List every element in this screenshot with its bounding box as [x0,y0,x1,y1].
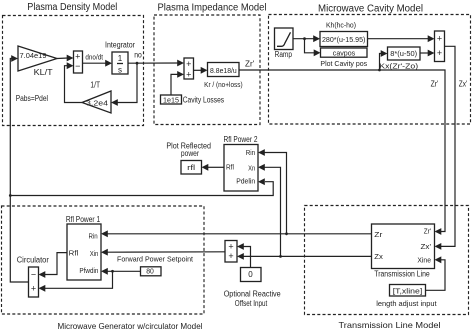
fcn block 280*(u-15.95) [320,32,368,47]
svg-text:Transmission Line Model: Transmission Line Model [339,320,441,329]
svg-text:Rfl: Rfl [69,249,79,258]
integrator block [112,52,128,74]
arrowhead into sum4 bottom [237,253,244,260]
gain KL/T triangle [18,46,57,71]
svg-text:8*(u-50): 8*(u-50) [390,49,417,58]
subsystem box Transmission Line Model [305,206,469,315]
constant block [T,xline] [390,285,426,297]
svg-text:rfl: rfl [187,163,195,172]
svg-text:Zx: Zx [374,252,383,261]
svg-text:Pdelin: Pdelin [236,177,255,186]
svg-text:Rfl Power 1: Rfl Power 1 [66,214,101,224]
svg-text:Transmission Line: Transmission Line [374,270,430,279]
subsystem block Transmission Line [372,224,435,269]
svg-text:8.8e18/u: 8.8e18/u [210,66,237,75]
svg-text:Xn: Xn [248,163,255,172]
svg-text:1e15: 1e15 [163,96,179,105]
wire sum2 to 8.8e18/u [194,69,203,71]
subsystem block Rfl Power 2 [224,145,258,192]
svg-text:Xine: Xine [417,255,431,264]
svg-text:Ramp: Ramp [275,50,293,59]
svg-text:80: 80 [146,267,154,276]
wire branch 80 down to circulator plus [45,271,113,288]
junction dot on 80 line [111,270,114,273]
wire 80 to Pfwdin [108,270,141,272]
wire branch ramp to cavpos [305,39,315,53]
junction dot on Zx line [279,255,282,258]
constant block 1e15 [161,95,182,104]
svg-text:+: + [186,70,191,80]
wire 8*(u-50) to sum3 [420,52,429,54]
svg-text:Optional Reactive: Optional Reactive [224,290,281,299]
wire Zx from Transmission Line to sum4 [244,255,372,257]
svg-text:1/T: 1/T [90,81,100,90]
svg-text:Kh(hc-ho): Kh(hc-ho) [326,21,356,30]
svg-text:Rfl Power 2: Rfl Power 2 [224,134,258,144]
svg-text:3.2e4: 3.2e4 [86,99,108,108]
wire sum1 to integrator (dno/dt) [83,62,107,64]
svg-text:Microwave Generator w/circulat: Microwave Generator w/circulator Model [58,321,203,329]
svg-text:Circulator: Circulator [17,255,49,264]
svg-text:Xin: Xin [90,249,99,258]
subsystem block Rfl Power 1 [67,224,101,280]
arrowhead into Rfl Power 1 Pfwdin [101,268,108,275]
arrowhead into TL Zx' [435,243,442,250]
wire Pdel branch to Pdelin [10,182,273,196]
arrowhead into 280 block [313,35,320,42]
arrowhead into Rfl Power 1 Xin [101,249,108,256]
wire no: integrator output to sum2 [128,62,179,64]
arrowhead into rfl scope [202,164,209,171]
junction dot on ramp output [303,37,306,40]
svg-text:[T,xline]: [T,xline] [393,287,423,296]
svg-text:Zx': Zx' [421,242,432,251]
svg-text:Kr / (no+loss): Kr / (no+loss) [204,80,243,89]
arrowhead into Rfl Power 2 Pdelin [258,178,265,185]
svg-text:Pfwdin: Pfwdin [79,266,98,275]
svg-text:−: − [31,269,36,279]
fcn block 8*(u-50) [388,47,421,60]
constant block 0 [241,268,262,282]
arrowhead into KL/T gain [11,55,18,62]
junction dot on Pabs line [9,194,12,197]
scope block rfl [181,161,202,175]
gain 1/T triangle [82,91,111,113]
svg-text:Pabs=Pdel: Pabs=Pdel [16,94,48,103]
sum block sum4 (optional reactive offset) [225,241,237,263]
arrowhead into Rfl Power 2 Rin [258,149,265,156]
svg-text:Integrator: Integrator [105,40,135,49]
svg-text:0: 0 [248,270,253,279]
svg-text:dno/dt: dno/dt [85,53,103,62]
arrowhead into sum2 top [177,60,184,67]
svg-text:7.04e19: 7.04e19 [20,51,47,60]
svg-text:1: 1 [118,54,123,63]
svg-text:+: + [437,48,442,58]
sum block sum3 (cavity) [435,31,445,62]
wire sum4 output to Rfl Power 1 Xin [108,251,226,253]
svg-text:Cavity Losses: Cavity Losses [183,96,224,105]
svg-text:+: + [228,251,233,261]
arrowhead into circulator minus [39,271,46,278]
wire Zx' from sum3 down to Transmission Line Zx' input [441,46,455,246]
arrowhead into sum3 bottom [428,50,435,57]
wire Rfl Power 1 output to circulator minus [45,253,67,275]
svg-text:Kx(Zr'-Zo): Kx(Zr'-Zo) [379,62,418,71]
svg-text:Forward Power Setpoint: Forward Power Setpoint [117,254,194,263]
svg-text:+: + [31,283,36,293]
svg-text:Zr: Zr [374,230,383,239]
wire [T,xline] to Xine input [426,260,446,291]
to-workspace block cavpos [321,48,368,57]
arrowhead into Rfl Power 2 Xn [258,164,265,171]
wire 280*(u-15.95) to sum3 [368,38,430,40]
svg-text:Microwave Cavity Model: Microwave Cavity Model [318,4,423,15]
arrowhead into TL Zr' [435,228,442,235]
fcn block 8.8e18/u [208,63,240,77]
svg-text:Plasma Density Model: Plasma Density Model [27,2,117,13]
wire 1e15 up to sum2 [171,74,179,95]
svg-text:length adjust input: length adjust input [376,299,437,308]
arrowhead into TL Xine [435,256,442,263]
arrowhead into 1/T gain [111,99,118,106]
wire Pabs=Pdel from circulator output up to KL/T gain input [10,59,28,283]
wire branch Zx up to Rfl Power 2 Xn [265,167,281,256]
svg-text:Offset Input: Offset Input [235,299,268,308]
sum block circulator [29,267,39,297]
wire Zr from Transmission Line to Rfl Power 1 Rin [108,233,372,235]
svg-text:Zr': Zr' [431,80,439,89]
svg-text:280*(u-15.95): 280*(u-15.95) [322,35,366,44]
subsystem box Microwave Cavity Model [269,15,471,125]
svg-text:+: + [75,52,80,62]
constant block 80 [141,267,162,276]
sum block sum1 (plasma) [74,51,83,73]
wire Zr' from 8.8e18/u right and down to Transmission Line Zr' input [239,70,445,232]
wire ramp output to 280*(u-15.95) [293,38,315,40]
subsystem box Microwave Generator w/circulator Model [2,206,205,314]
svg-text:Zx': Zx' [459,80,468,89]
arrowhead into sum1 minus [67,62,74,69]
svg-text:Plot Cavity pos: Plot Cavity pos [320,59,367,68]
subsystem box Plasma Density Model [3,16,144,126]
wire 1/T gain to sum1 minus input [65,66,83,103]
svg-text:KL/T: KL/T [34,68,53,77]
svg-text:+: + [437,34,442,44]
svg-text:cavpos: cavpos [333,49,356,58]
arrowhead into integrator [105,60,112,67]
svg-text:Zr': Zr' [245,59,255,68]
svg-text:power: power [181,149,199,158]
junction dot on Zr' line [378,69,381,72]
arrowhead into 8 block [381,50,388,57]
arrowhead into 8.8e18/u [201,67,208,74]
arrowhead into sum4 top [237,243,244,250]
arrowhead into circulator plus [39,285,46,292]
svg-text:s: s [118,66,122,75]
svg-text:Rin: Rin [89,232,98,241]
arrowhead into sum2 bottom [177,71,184,78]
svg-text:+: + [186,59,191,69]
wire branch Zr' up to 8*(u-50) input [380,54,383,71]
arrowhead into sum3 top [428,35,435,42]
junction dot on no line [136,62,139,65]
svg-text:Rfl: Rfl [226,163,234,172]
svg-text:Plasma Impedance Model: Plasma Impedance Model [158,3,267,14]
svg-text:no: no [134,51,142,60]
svg-text:Zr': Zr' [424,227,432,236]
svg-text:−: − [75,61,80,71]
sum block sum2 (impedance) [184,58,194,79]
arrowhead into cavpos [314,49,321,56]
junction dot on Zr line [285,232,288,235]
svg-text:Rin: Rin [246,148,256,157]
wire branch Zr up to Rfl Power 2 Rin [265,153,287,234]
subsystem box Plasma Impedance Model [154,15,260,125]
wire gain KL/T to sum1 [57,57,68,60]
arrowhead into sum1 plus [67,55,74,62]
arrowhead into Rfl Power 1 Rin [101,230,108,237]
ramp block [275,28,294,50]
wire feedback down from no line to 1/T gain [118,63,138,102]
wire 0 constant up to sum4 [244,247,251,268]
wire Rfl Power 2 output to rfl scope [208,166,224,168]
